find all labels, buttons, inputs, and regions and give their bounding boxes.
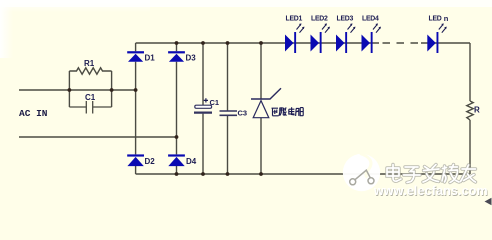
resistor R1 xyxy=(69,68,111,74)
LED3 xyxy=(336,23,356,53)
svg-text:LED: LED xyxy=(429,15,442,22)
wire electrolytic C1 column xyxy=(202,43,204,174)
junction AC bottom at bridge xyxy=(175,135,179,139)
diode D4 xyxy=(168,154,185,166)
svg-text:R1: R1 xyxy=(84,59,95,68)
wire RC block right vertical xyxy=(111,71,113,107)
wire D1-D2 bridge column xyxy=(135,43,137,174)
capacitor C3 plates xyxy=(220,111,238,115)
LED1 xyxy=(285,23,305,53)
svg-text:D2: D2 xyxy=(145,157,156,166)
wire right vertical below R xyxy=(469,120,471,174)
wire D3-D4 bridge column xyxy=(176,43,178,174)
resistor R xyxy=(467,101,473,120)
LED2 xyxy=(311,23,331,53)
wire from dashes through LED n to right corner xyxy=(421,42,470,44)
wire varistor column xyxy=(260,43,262,174)
wire C3 column xyxy=(227,43,229,174)
svg-text:LED2: LED2 xyxy=(311,15,328,22)
junction RV bottom xyxy=(259,172,263,176)
wire right vertical above R xyxy=(469,43,471,101)
label varistor (Chinese, drawn as strokes) xyxy=(272,107,304,116)
capacitor C1 electrolytic plates xyxy=(194,105,212,112)
capacitor C1 (line filter) xyxy=(69,101,111,114)
svg-text:D1: D1 xyxy=(145,54,156,63)
svg-text:LED4: LED4 xyxy=(362,15,379,22)
watermark text dianzi fashaoyou (drawn strokes) xyxy=(387,165,476,183)
wire AC input bottom xyxy=(19,136,177,138)
watermark logo circle xyxy=(343,154,380,192)
junction AC top at bridge xyxy=(134,88,138,92)
LED4 xyxy=(362,23,382,53)
svg-text:LED3: LED3 xyxy=(337,15,354,22)
svg-text:C1: C1 xyxy=(85,93,96,102)
svg-text:C1: C1 xyxy=(210,98,220,107)
svg-text:www.elecfans.com: www.elecfans.com xyxy=(373,184,488,198)
svg-text:D4: D4 xyxy=(186,157,197,166)
diode D2 xyxy=(127,154,144,166)
diode D1 xyxy=(127,51,144,62)
junction D4 bottom xyxy=(175,172,179,176)
svg-text:R: R xyxy=(474,106,480,115)
svg-text:C3: C3 xyxy=(238,109,248,118)
wire bottom rail xyxy=(136,173,470,175)
wire dashed segment before LED n xyxy=(383,42,419,44)
svg-text:AC IN: AC IN xyxy=(19,108,48,119)
junction C1 bottom xyxy=(201,172,205,176)
svg-text:LED1: LED1 xyxy=(286,15,303,22)
varistor RV symbol xyxy=(251,88,281,117)
junction D3 top xyxy=(175,41,179,45)
wire top rail from bridge to LED string xyxy=(136,42,379,44)
capacitor C1 plus sign xyxy=(204,98,208,102)
LED n xyxy=(427,23,447,53)
junction C3 bottom xyxy=(226,172,230,176)
svg-text:n: n xyxy=(444,14,449,23)
wire RC block left vertical xyxy=(68,71,70,107)
junction RV top xyxy=(259,41,263,45)
junction RC right node xyxy=(110,88,114,92)
svg-text:D3: D3 xyxy=(186,54,197,63)
diode D3 xyxy=(168,51,185,62)
junction C1 top xyxy=(201,41,205,45)
junction RC left node xyxy=(68,88,72,92)
wire AC input top xyxy=(19,89,136,91)
cursor arrow bottom right xyxy=(485,198,492,205)
junction C3 top xyxy=(226,41,230,45)
